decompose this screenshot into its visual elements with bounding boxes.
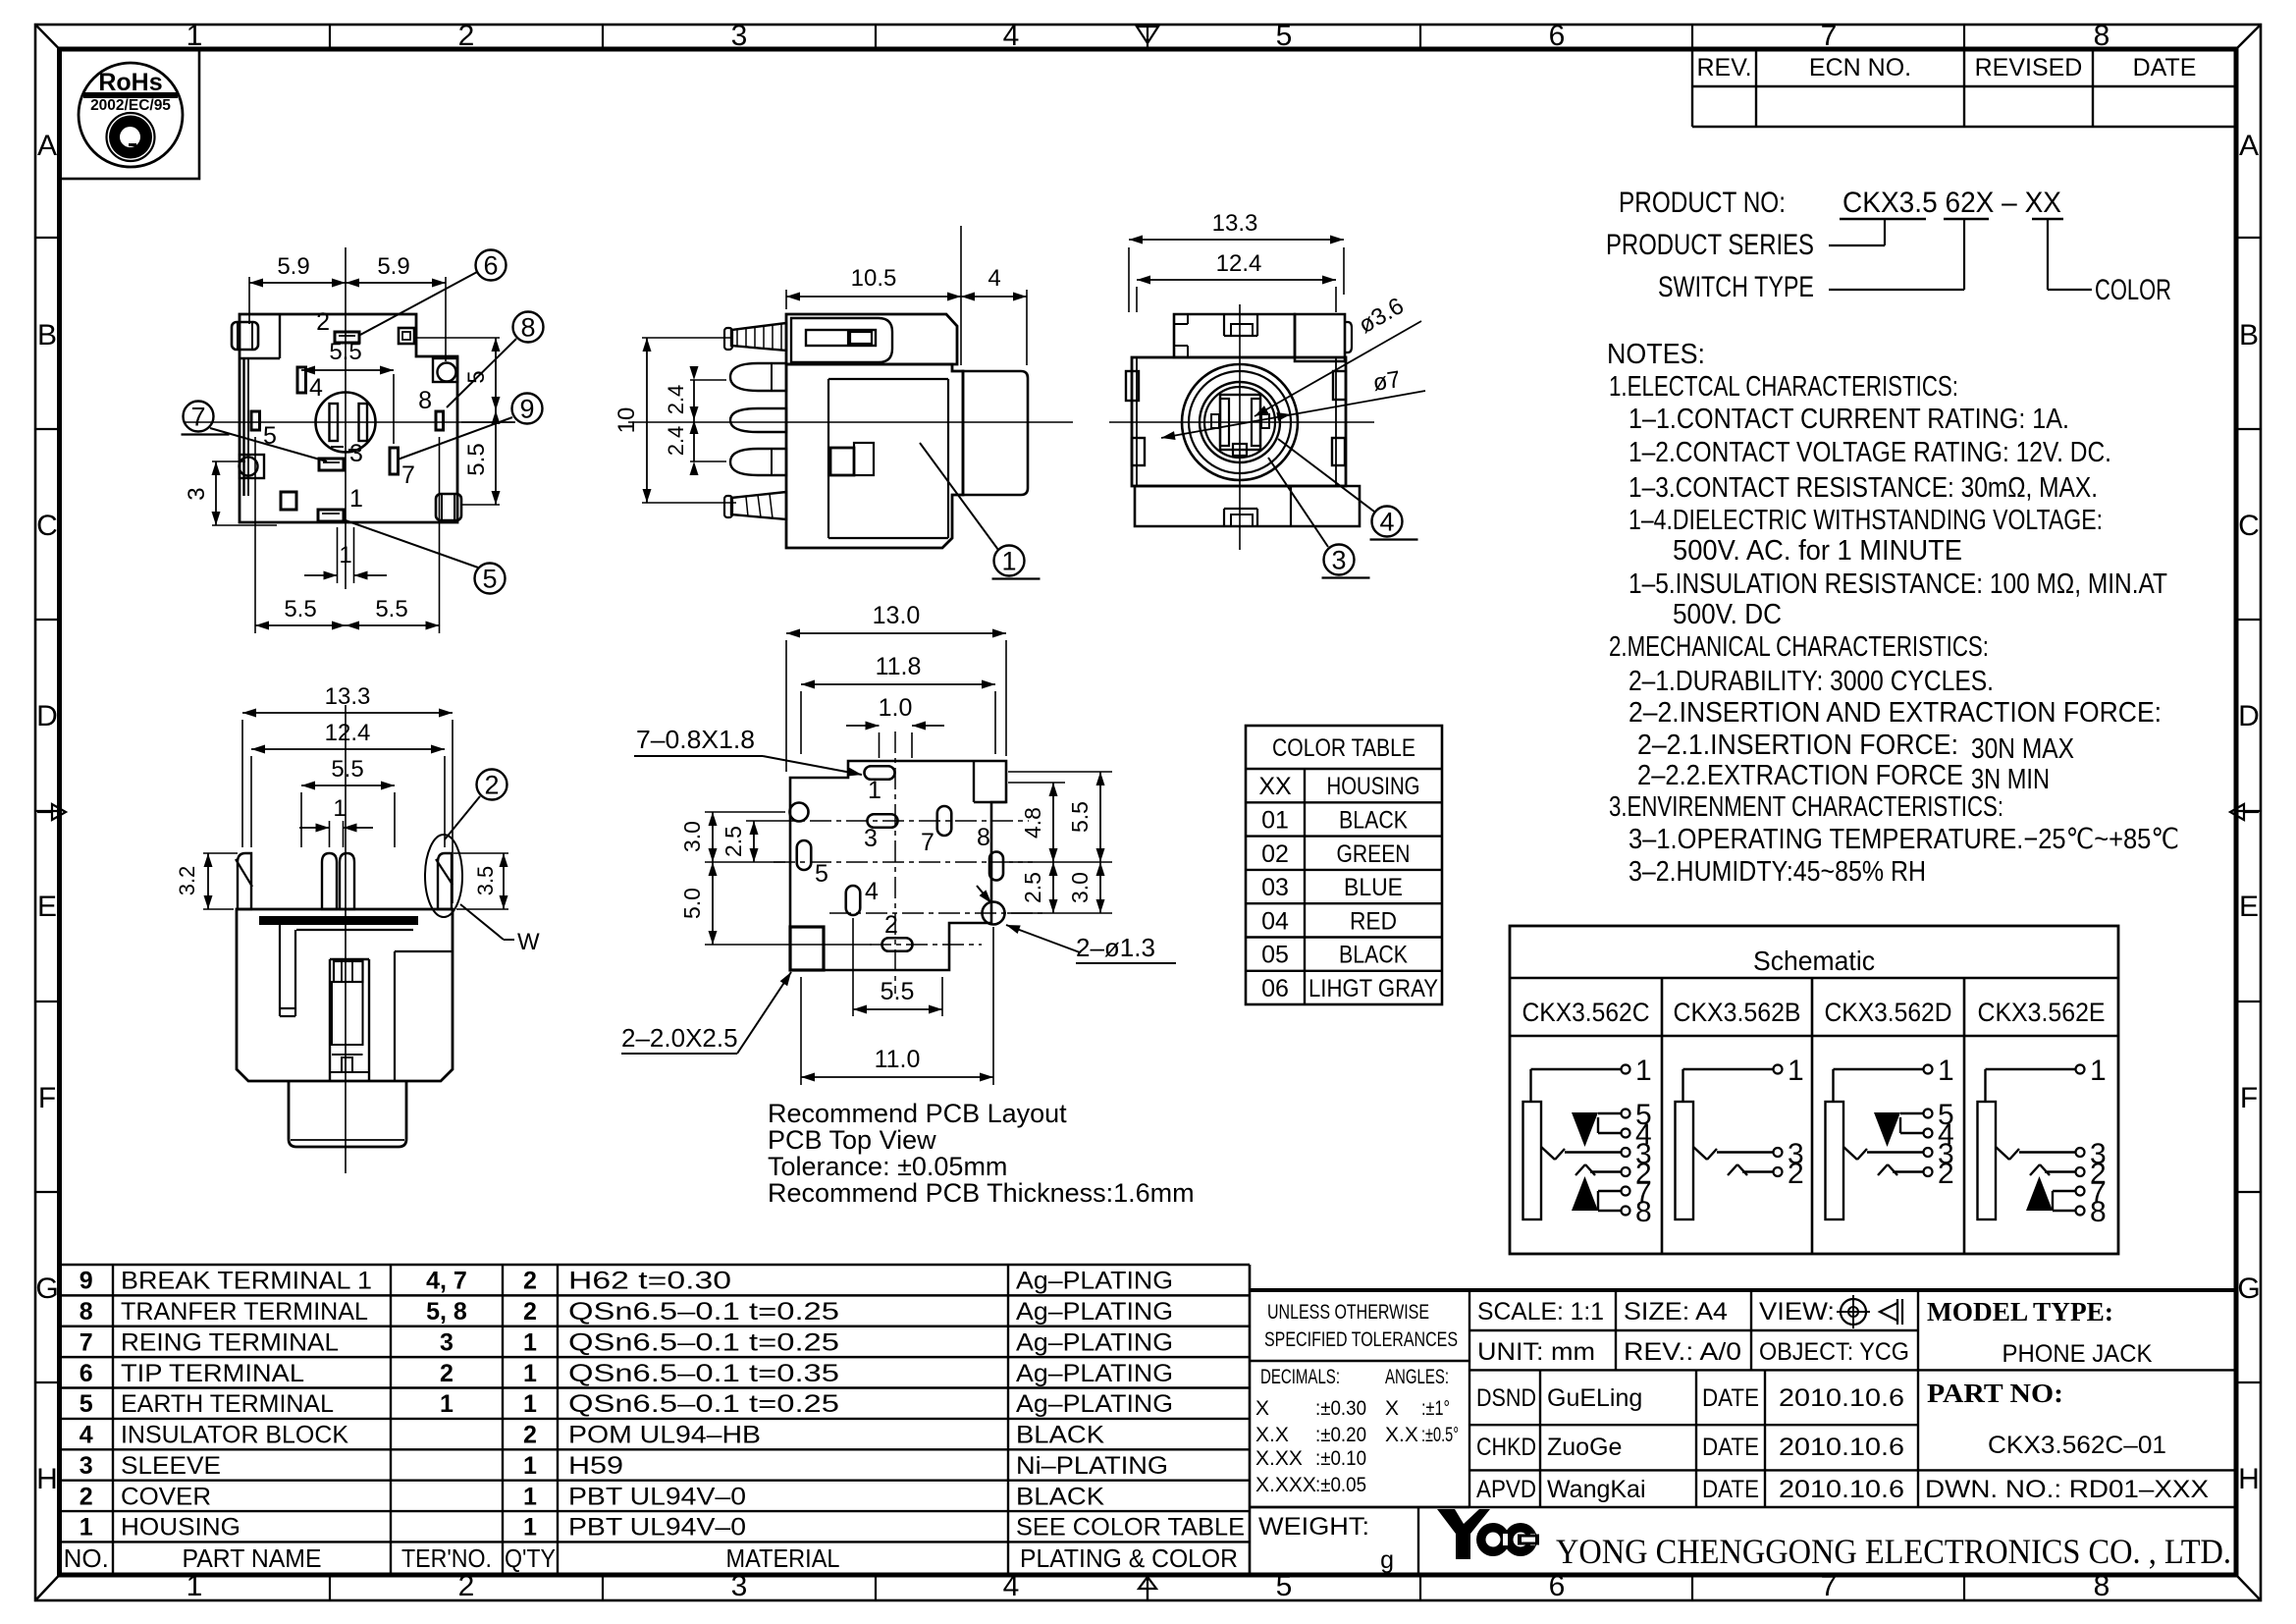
svg-text:5.5: 5.5 <box>1067 801 1093 833</box>
svg-text:3N MIN: 3N MIN <box>1971 764 2050 795</box>
svg-text::±0.10: :±0.10 <box>1315 1447 1366 1470</box>
svg-text:2: 2 <box>316 308 330 336</box>
svg-text:X: X <box>1385 1397 1399 1420</box>
svg-text:DSND: DSND <box>1476 1384 1536 1412</box>
svg-text:3: 3 <box>1331 546 1346 575</box>
svg-text:DATE: DATE <box>1702 1476 1759 1503</box>
svg-text:PART NAME: PART NAME <box>183 1543 322 1573</box>
svg-text:D: D <box>2238 700 2260 732</box>
svg-text:YONG CHENGGONG ELECTRONICS: YONG CHENGGONG ELECTRONICS CO. , LTD. <box>1556 1532 2231 1571</box>
svg-text:BLACK: BLACK <box>1339 806 1408 834</box>
svg-text:3: 3 <box>349 440 363 467</box>
svg-text:8: 8 <box>977 824 990 851</box>
svg-text:2.5: 2.5 <box>1020 872 1045 903</box>
svg-text:Ni–PLATING: Ni–PLATING <box>1016 1452 1168 1480</box>
svg-text:8: 8 <box>2090 1196 2107 1228</box>
svg-text:NO.: NO. <box>64 1543 109 1573</box>
svg-text:H62 t=0.30: H62 t=0.30 <box>568 1268 731 1295</box>
svg-text:1: 1 <box>523 1483 537 1510</box>
svg-text:D: D <box>36 700 58 732</box>
svg-text:QSn6.5–0.1 t=0.25: QSn6.5–0.1 t=0.25 <box>568 1298 839 1326</box>
svg-text:2: 2 <box>440 1360 454 1387</box>
svg-text:X.XXX: X.XXX <box>1255 1474 1316 1496</box>
svg-text:4.8: 4.8 <box>1020 807 1045 839</box>
svg-text:02: 02 <box>1261 840 1289 868</box>
svg-text:5.5: 5.5 <box>881 978 915 1005</box>
svg-text:5: 5 <box>80 1390 93 1418</box>
svg-text:11.8: 11.8 <box>876 653 922 680</box>
svg-text:RED: RED <box>1350 907 1397 935</box>
svg-text:2: 2 <box>1938 1158 1954 1190</box>
svg-text:SIZE: A4: SIZE: A4 <box>1624 1298 1728 1326</box>
svg-text:HOUSING: HOUSING <box>121 1514 240 1542</box>
svg-text:DECIMALS:: DECIMALS: <box>1260 1366 1340 1388</box>
svg-text:POM UL94–HB: POM UL94–HB <box>568 1422 761 1449</box>
svg-text:1: 1 <box>339 542 351 568</box>
svg-text:5.9: 5.9 <box>277 253 309 280</box>
svg-text:5.5: 5.5 <box>284 596 316 623</box>
svg-text:03: 03 <box>1261 874 1289 901</box>
svg-text:W: W <box>517 929 540 955</box>
svg-text:Q'TY: Q'TY <box>505 1543 556 1573</box>
svg-text:1: 1 <box>523 1514 537 1542</box>
svg-text:4: 4 <box>1379 508 1394 537</box>
svg-text:4, 7: 4, 7 <box>426 1268 467 1295</box>
svg-text:ANGLES:: ANGLES: <box>1385 1366 1449 1388</box>
svg-text:CKX3.562C: CKX3.562C <box>1522 998 1650 1027</box>
svg-text:7: 7 <box>190 403 205 432</box>
svg-text:4: 4 <box>309 374 323 402</box>
svg-text:PRODUCT SERIES: PRODUCT SERIES <box>1606 229 1814 261</box>
svg-text:2: 2 <box>80 1483 93 1510</box>
svg-text:5: 5 <box>815 860 828 888</box>
svg-text:BLUE: BLUE <box>1344 874 1403 901</box>
svg-text:1: 1 <box>1938 1055 1954 1087</box>
svg-text:BLACK: BLACK <box>1339 942 1408 969</box>
svg-text:5.5: 5.5 <box>331 756 363 783</box>
svg-text:1–1.CONTACT CURRENT RATING:: 1–1.CONTACT CURRENT RATING: 1A. <box>1629 404 2069 435</box>
svg-text:ø7: ø7 <box>1371 366 1403 397</box>
svg-text:6: 6 <box>80 1360 93 1387</box>
svg-text:2010.10.6: 2010.10.6 <box>1779 1434 1904 1461</box>
svg-text:2: 2 <box>458 20 475 52</box>
svg-text::±0.05: :±0.05 <box>1315 1474 1366 1496</box>
svg-text:3: 3 <box>440 1328 454 1356</box>
svg-text:11.0: 11.0 <box>875 1046 921 1073</box>
svg-text:PART NO:: PART NO: <box>1927 1379 2063 1408</box>
svg-text:SEE COLOR TABLE: SEE COLOR TABLE <box>1016 1514 1245 1542</box>
svg-text:1: 1 <box>2090 1055 2107 1087</box>
svg-text:2: 2 <box>1788 1158 1804 1190</box>
svg-text::±1°: :±1° <box>1421 1397 1450 1420</box>
svg-text:01: 01 <box>1261 806 1289 834</box>
svg-text:2.5: 2.5 <box>721 826 746 857</box>
svg-text:500V. DC: 500V. DC <box>1673 599 1782 630</box>
svg-text:COLOR TABLE: COLOR TABLE <box>1272 734 1415 762</box>
svg-text:2: 2 <box>458 1570 475 1602</box>
svg-text:3.5: 3.5 <box>473 866 498 896</box>
svg-text:WangKai: WangKai <box>1547 1476 1646 1503</box>
svg-text:Recommend PCB Thickness:1.6m: Recommend PCB Thickness:1.6mm <box>768 1178 1195 1208</box>
svg-text:1: 1 <box>187 20 203 52</box>
svg-text:A: A <box>2239 130 2259 162</box>
svg-text:X.XX: X.XX <box>1255 1447 1303 1470</box>
svg-text:DWN. NO.: RD01–XXX: DWN. NO.: RD01–XXX <box>1925 1476 2209 1503</box>
svg-text:CKX3.562C–01: CKX3.562C–01 <box>1988 1432 2166 1459</box>
svg-text:10.5: 10.5 <box>851 265 897 292</box>
svg-text:7: 7 <box>921 829 934 856</box>
svg-text:COVER: COVER <box>121 1483 211 1510</box>
svg-text:XX: XX <box>1258 773 1292 800</box>
svg-text:SLEEVE: SLEEVE <box>121 1452 221 1480</box>
svg-text:SCALE: 1:1: SCALE: 1:1 <box>1477 1298 1604 1326</box>
svg-text:1: 1 <box>349 485 363 513</box>
svg-text:5: 5 <box>1276 1570 1293 1602</box>
svg-text:EARTH TERMINAL: EARTH TERMINAL <box>121 1390 334 1418</box>
svg-text:RoHs: RoHs <box>98 69 162 96</box>
svg-text:1: 1 <box>80 1514 93 1542</box>
svg-text:30N MAX: 30N MAX <box>1971 733 2074 765</box>
svg-text:4: 4 <box>80 1422 93 1449</box>
svg-text:2–2.INSERTION AND EXTRACTION: 2–2.INSERTION AND EXTRACTION FORCE: <box>1629 697 2162 729</box>
svg-text:05: 05 <box>1261 942 1289 969</box>
svg-text:13.3: 13.3 <box>325 683 371 710</box>
svg-text:1: 1 <box>868 777 881 804</box>
svg-text:Ag–PLATING: Ag–PLATING <box>1016 1268 1173 1295</box>
svg-text:Tolerance: ±0.05mm: Tolerance: ±0.05mm <box>768 1152 1007 1181</box>
svg-text:F: F <box>38 1082 56 1114</box>
svg-text:PBT UL94V–0: PBT UL94V–0 <box>568 1483 746 1510</box>
svg-text:H59: H59 <box>568 1452 623 1480</box>
svg-text:7: 7 <box>1821 20 1838 52</box>
svg-text:1–3.CONTACT RESISTANCE: 30mΩ: 1–3.CONTACT RESISTANCE: 30mΩ, MAX. <box>1629 472 2098 504</box>
svg-text:B: B <box>37 319 57 352</box>
svg-text:APVD: APVD <box>1476 1476 1536 1503</box>
svg-text:X: X <box>1255 1397 1269 1420</box>
svg-text:UNLESS OTHERWISE: UNLESS OTHERWISE <box>1267 1301 1429 1324</box>
svg-text:1: 1 <box>1788 1055 1804 1087</box>
svg-text:CKX3.562D: CKX3.562D <box>1825 998 1952 1027</box>
svg-text:Ag–PLATING: Ag–PLATING <box>1016 1360 1173 1387</box>
svg-text:BLACK: BLACK <box>1016 1422 1104 1449</box>
svg-text:1: 1 <box>1635 1055 1652 1087</box>
svg-text:10: 10 <box>614 407 640 434</box>
svg-text:HOUSING: HOUSING <box>1327 773 1420 800</box>
svg-text:g: g <box>1380 1546 1394 1574</box>
svg-text:4: 4 <box>1003 20 1020 52</box>
svg-text:BREAK TERMINAL 1: BREAK TERMINAL 1 <box>121 1268 372 1295</box>
svg-text:3.ENVIRENMENT CHARACTERISTICS: 3.ENVIRENMENT CHARACTERISTICS: <box>1609 791 2003 823</box>
svg-text:UNIT: mm: UNIT: mm <box>1477 1338 1595 1366</box>
svg-text:2: 2 <box>523 1422 537 1449</box>
svg-text:9: 9 <box>80 1268 93 1295</box>
svg-text:1: 1 <box>440 1390 454 1418</box>
svg-text:5, 8: 5, 8 <box>426 1298 467 1326</box>
svg-text:2002/EC/95: 2002/EC/95 <box>90 97 171 114</box>
svg-text:4: 4 <box>865 878 879 905</box>
svg-text:X.X: X.X <box>1385 1424 1418 1446</box>
svg-text:6: 6 <box>1549 1570 1566 1602</box>
svg-text::±0.5°: :±0.5° <box>1421 1424 1459 1446</box>
svg-text:LIHGT GRAY: LIHGT GRAY <box>1308 975 1438 1002</box>
svg-text:H: H <box>36 1463 58 1495</box>
svg-text:CKX3.562E: CKX3.562E <box>1978 998 2106 1027</box>
svg-text:4: 4 <box>988 265 1000 292</box>
svg-text:F: F <box>2240 1082 2258 1114</box>
svg-text:3: 3 <box>864 825 878 852</box>
svg-text:MODEL TYPE:: MODEL TYPE: <box>1927 1297 2113 1326</box>
svg-text:A: A <box>37 130 57 162</box>
svg-text:TRANFER TERMINAL: TRANFER TERMINAL <box>121 1298 368 1326</box>
svg-text:TIP TERMINAL: TIP TERMINAL <box>121 1360 304 1387</box>
svg-text:1: 1 <box>523 1360 537 1387</box>
svg-text:2: 2 <box>884 911 898 939</box>
svg-text:3–2.HUMIDTY:45~85% RH: 3–2.HUMIDTY:45~85% RH <box>1629 856 1926 888</box>
svg-text:DATE: DATE <box>1702 1384 1759 1412</box>
svg-text:13.3: 13.3 <box>1212 210 1258 237</box>
svg-text:Ag–PLATING: Ag–PLATING <box>1016 1298 1173 1326</box>
svg-text:BLACK: BLACK <box>1016 1483 1104 1510</box>
svg-text:7–0.8X1.8: 7–0.8X1.8 <box>636 725 755 754</box>
svg-text:1: 1 <box>1001 547 1016 576</box>
svg-text:ECN NO.: ECN NO. <box>1809 54 1911 81</box>
svg-text:2.4: 2.4 <box>664 385 688 415</box>
svg-text:MATERIAL: MATERIAL <box>726 1543 840 1573</box>
svg-text:2–ø1.3: 2–ø1.3 <box>1076 933 1155 962</box>
svg-text:C: C <box>36 510 58 542</box>
svg-text:G: G <box>35 1272 58 1305</box>
svg-text:6: 6 <box>483 251 498 281</box>
svg-text:1.0: 1.0 <box>879 694 913 722</box>
svg-text:06: 06 <box>1261 975 1289 1002</box>
svg-text:3.0: 3.0 <box>1067 872 1093 903</box>
svg-text:5.5: 5.5 <box>375 596 407 623</box>
svg-text:5.5: 5.5 <box>463 443 490 475</box>
svg-text:2.4: 2.4 <box>664 426 688 457</box>
svg-text:8: 8 <box>1635 1196 1652 1228</box>
svg-text:Recommend PCB Layout: Recommend PCB Layout <box>768 1099 1067 1128</box>
svg-text:C: C <box>2238 510 2260 542</box>
svg-text:X.X: X.X <box>1255 1424 1289 1446</box>
svg-text:9: 9 <box>519 395 534 424</box>
svg-text:8: 8 <box>2094 20 2110 52</box>
svg-text:SPECIFIED TOLERANCES: SPECIFIED TOLERANCES <box>1264 1328 1458 1351</box>
svg-text:1: 1 <box>333 795 346 822</box>
svg-text:QSn6.5–0.1 t=0.35: QSn6.5–0.1 t=0.35 <box>568 1360 839 1387</box>
svg-text:DATE: DATE <box>1702 1434 1759 1461</box>
svg-text:NOTES:: NOTES: <box>1607 339 1705 370</box>
svg-text:1–5.INSULATION RESISTANCE: 1: 1–5.INSULATION RESISTANCE: 100 MΩ, MIN.A… <box>1629 568 2167 600</box>
svg-text:5.5: 5.5 <box>329 339 361 365</box>
svg-text:TER'NO.: TER'NO. <box>401 1543 492 1573</box>
svg-text:SWITCH TYPE: SWITCH TYPE <box>1658 271 1814 303</box>
svg-text:8: 8 <box>2094 1570 2110 1602</box>
svg-text:2–1.DURABILITY: 3000 CYCLES.: 2–1.DURABILITY: 3000 CYCLES. <box>1629 666 1994 697</box>
svg-text:8: 8 <box>520 313 535 343</box>
svg-text:7: 7 <box>1821 1570 1838 1602</box>
svg-text:GREEN: GREEN <box>1337 840 1411 868</box>
svg-text:CKX3.562B: CKX3.562B <box>1674 998 1801 1027</box>
svg-text:2010.10.6: 2010.10.6 <box>1779 1476 1904 1503</box>
svg-text:12.4: 12.4 <box>325 720 371 746</box>
svg-text:2: 2 <box>523 1268 537 1295</box>
svg-text:E: E <box>2239 891 2259 923</box>
svg-text:Ag–PLATING: Ag–PLATING <box>1016 1390 1173 1418</box>
svg-text:3: 3 <box>731 1570 748 1602</box>
svg-text:2010.10.6: 2010.10.6 <box>1779 1384 1904 1412</box>
svg-text:8: 8 <box>418 387 432 414</box>
svg-text:E: E <box>37 891 57 923</box>
svg-text:CHKD: CHKD <box>1476 1434 1536 1461</box>
svg-text:2–2.1.INSERTION FORCE:: 2–2.1.INSERTION FORCE: <box>1637 730 1958 761</box>
svg-text:6: 6 <box>1549 20 1566 52</box>
svg-text:REING TERMINAL: REING TERMINAL <box>121 1328 339 1356</box>
svg-text:500V. AC. for 1 MINUTE: 500V. AC. for 1 MINUTE <box>1673 535 1962 567</box>
svg-text:REV.: A/0: REV.: A/0 <box>1624 1338 1741 1366</box>
svg-text::±0.30: :±0.30 <box>1315 1397 1366 1420</box>
svg-text:5: 5 <box>482 565 497 594</box>
svg-text:VIEW:: VIEW: <box>1759 1298 1835 1326</box>
svg-text:REV.: REV. <box>1696 54 1751 81</box>
svg-text:PLATING & COLOR: PLATING & COLOR <box>1020 1543 1238 1573</box>
svg-text:3–1.OPERATING TEMPERATURE.−25: 3–1.OPERATING TEMPERATURE.−25℃~+85℃ <box>1629 824 2179 855</box>
svg-text:GuELing: GuELing <box>1547 1384 1642 1412</box>
svg-text:2: 2 <box>484 771 499 800</box>
svg-text:5.0: 5.0 <box>679 888 705 919</box>
svg-text:7: 7 <box>80 1328 93 1356</box>
svg-text::±0.20: :±0.20 <box>1315 1424 1366 1446</box>
svg-text:2: 2 <box>523 1298 537 1326</box>
svg-text:G: G <box>2237 1272 2260 1305</box>
svg-text:13.0: 13.0 <box>873 602 921 629</box>
svg-text:COLOR: COLOR <box>2095 274 2171 306</box>
svg-text:3: 3 <box>731 20 748 52</box>
svg-text:INSULATOR BLOCK: INSULATOR BLOCK <box>121 1422 348 1449</box>
svg-text:B: B <box>2239 319 2259 352</box>
svg-text:H: H <box>2238 1463 2260 1495</box>
svg-text:1: 1 <box>187 1570 203 1602</box>
svg-text:8: 8 <box>80 1298 93 1326</box>
svg-text:1: 1 <box>523 1390 537 1418</box>
svg-text:Ag–PLATING: Ag–PLATING <box>1016 1328 1173 1356</box>
svg-text:1–4.DIELECTRIC WITHSTANDING: 1–4.DIELECTRIC WITHSTANDING VOLTAGE: <box>1629 505 2103 536</box>
svg-text:CKX3.5 62X – XX: CKX3.5 62X – XX <box>1842 187 2061 219</box>
svg-text:PCB Top View: PCB Top View <box>768 1125 936 1155</box>
svg-text:3.2: 3.2 <box>175 866 199 896</box>
svg-text:3: 3 <box>80 1452 93 1480</box>
svg-text:ZuoGe: ZuoGe <box>1547 1434 1622 1461</box>
svg-text:REVISED: REVISED <box>1975 54 2083 81</box>
svg-text:3.0: 3.0 <box>679 821 705 852</box>
svg-text:1: 1 <box>523 1452 537 1480</box>
svg-text:QSn6.5–0.1 t=0.25: QSn6.5–0.1 t=0.25 <box>568 1390 839 1418</box>
svg-text:QSn6.5–0.1 t=0.25: QSn6.5–0.1 t=0.25 <box>568 1328 839 1356</box>
svg-text:5: 5 <box>1276 20 1293 52</box>
svg-text:5.9: 5.9 <box>377 253 409 280</box>
svg-text:PRODUCT NO:: PRODUCT NO: <box>1619 187 1786 219</box>
svg-text:PHONE JACK: PHONE JACK <box>2002 1340 2153 1368</box>
svg-text:WEIGHT:: WEIGHT: <box>1258 1513 1369 1541</box>
svg-text:2–2.2.EXTRACTION FORCE: 2–2.2.EXTRACTION FORCE <box>1637 760 1963 791</box>
svg-text:7: 7 <box>401 461 415 489</box>
svg-text:1.ELECTCAL CHARACTERISTICS:: 1.ELECTCAL CHARACTERISTICS: <box>1609 371 1958 403</box>
svg-text:OBJECT: YCG: OBJECT: YCG <box>1759 1338 1909 1366</box>
svg-text:DATE: DATE <box>2133 54 2197 81</box>
svg-text:Schematic: Schematic <box>1753 946 1875 976</box>
svg-text:12.4: 12.4 <box>1216 250 1262 277</box>
svg-text:1–2.CONTACT VOLTAGE RATING:: 1–2.CONTACT VOLTAGE RATING: 12V. DC. <box>1629 437 2111 468</box>
svg-text:04: 04 <box>1261 907 1289 935</box>
svg-text:2–2.0X2.5: 2–2.0X2.5 <box>621 1023 738 1053</box>
svg-text:PBT UL94V–0: PBT UL94V–0 <box>568 1514 746 1542</box>
svg-text:1: 1 <box>523 1328 537 1356</box>
svg-text:3: 3 <box>184 487 210 500</box>
svg-text:2.MECHANICAL CHARACTERISTICS:: 2.MECHANICAL CHARACTERISTICS: <box>1609 631 1989 663</box>
svg-text:4: 4 <box>1003 1570 1020 1602</box>
